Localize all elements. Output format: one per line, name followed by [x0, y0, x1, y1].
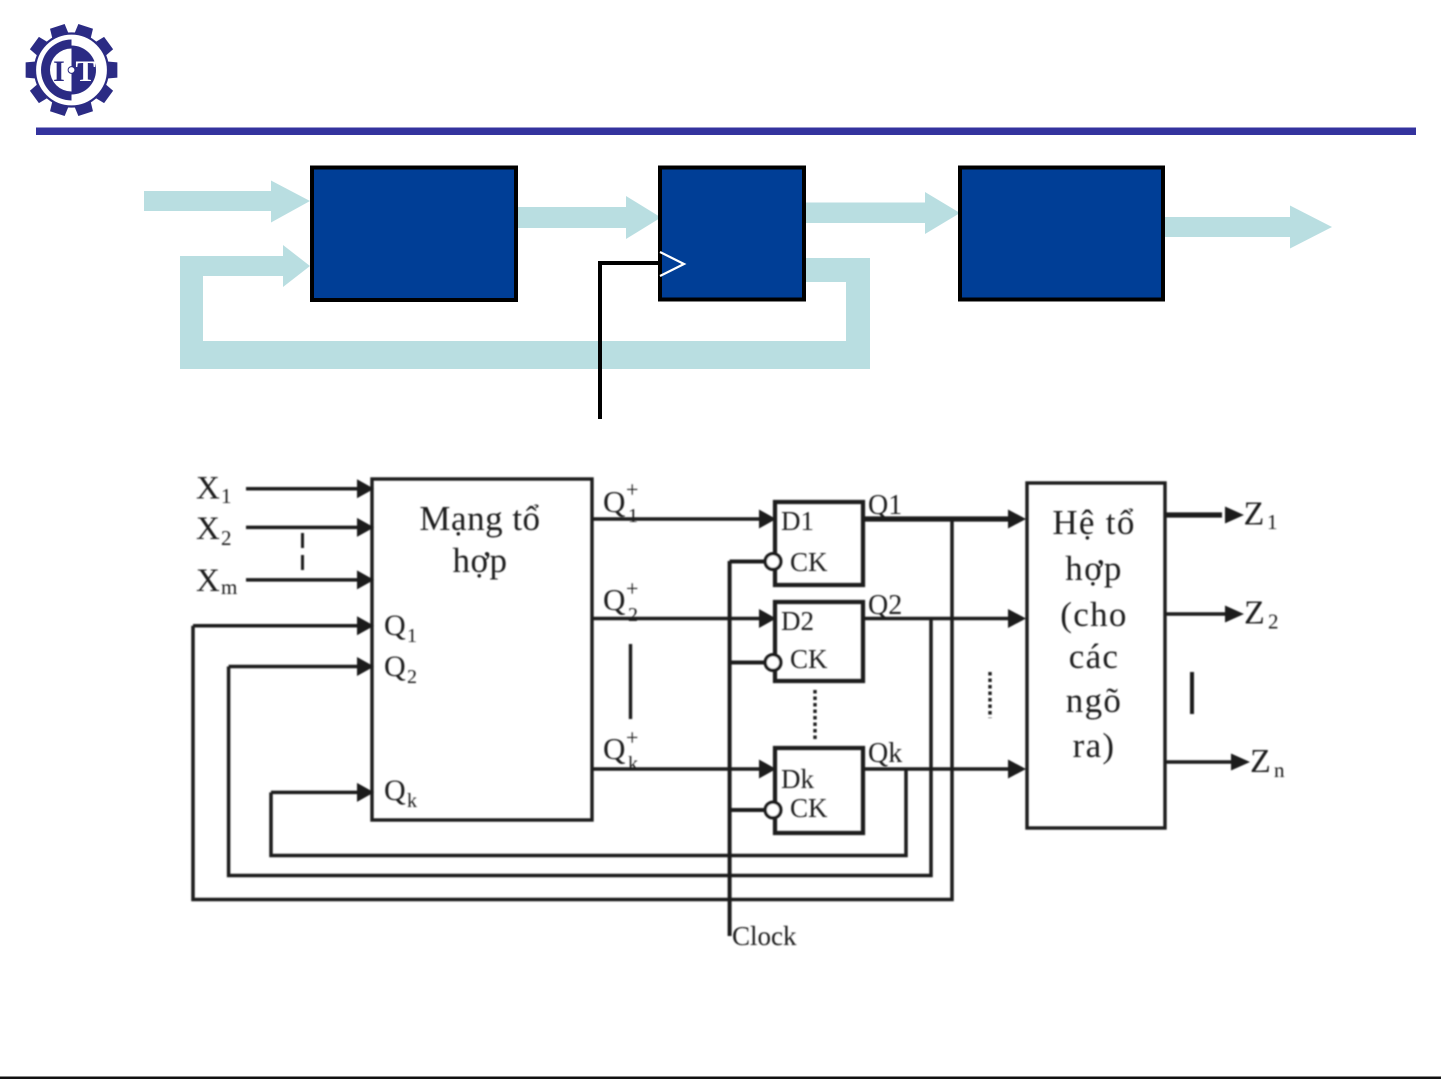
svg-text:1: 1 — [1267, 510, 1278, 534]
svg-text:T: T — [75, 55, 95, 88]
svg-text:Hệ tổ: Hệ tổ — [1052, 503, 1135, 542]
svg-text:Q: Q — [384, 650, 406, 683]
svg-text:m: m — [221, 575, 237, 599]
svg-text:+: + — [626, 725, 638, 750]
svg-text:X: X — [196, 471, 220, 507]
svg-text:Q: Q — [603, 582, 625, 617]
svg-text:k: k — [628, 753, 638, 775]
svg-text:+: + — [626, 576, 638, 601]
svg-text:ngõ: ngõ — [1066, 681, 1122, 720]
svg-text:Q: Q — [603, 731, 625, 766]
svg-text:hợp: hợp — [1065, 549, 1122, 588]
svg-text:ra): ra) — [1073, 726, 1116, 765]
svg-text:Q: Q — [603, 484, 625, 519]
svg-text:2: 2 — [1268, 610, 1279, 634]
svg-text:1: 1 — [221, 484, 232, 508]
svg-text:Dk: Dk — [781, 764, 814, 794]
svg-text:các: các — [1069, 637, 1120, 676]
svg-text:k: k — [407, 790, 417, 812]
svg-text:CK: CK — [790, 644, 828, 674]
svg-text:Z: Z — [1244, 595, 1265, 632]
svg-text:Q: Q — [384, 774, 406, 807]
svg-text:D2: D2 — [781, 606, 814, 636]
svg-text:1: 1 — [407, 625, 417, 647]
svg-text:n: n — [1274, 758, 1285, 782]
svg-text:I: I — [53, 55, 65, 88]
svg-text:Z: Z — [1250, 743, 1271, 780]
svg-text:Q1: Q1 — [868, 490, 902, 521]
svg-text:Qk: Qk — [868, 738, 902, 769]
svg-text:(cho: (cho — [1060, 595, 1127, 634]
svg-text:1: 1 — [628, 505, 638, 527]
svg-text:Clock: Clock — [732, 921, 797, 951]
svg-text:Q2: Q2 — [868, 590, 902, 621]
svg-text:2: 2 — [221, 526, 232, 550]
svg-text:hợp: hợp — [452, 541, 507, 580]
svg-text:2: 2 — [407, 666, 417, 688]
svg-text:CK: CK — [790, 547, 828, 577]
svg-text:X: X — [196, 511, 220, 547]
svg-text:Q: Q — [384, 609, 406, 642]
svg-text:CK: CK — [790, 793, 828, 823]
svg-text:2: 2 — [628, 604, 638, 626]
svg-text:+: + — [626, 477, 638, 502]
svg-text:Z: Z — [1244, 496, 1265, 533]
svg-text:Mạng tổ: Mạng tổ — [419, 499, 540, 538]
svg-text:D1: D1 — [781, 506, 814, 536]
svg-text:X: X — [196, 563, 220, 599]
